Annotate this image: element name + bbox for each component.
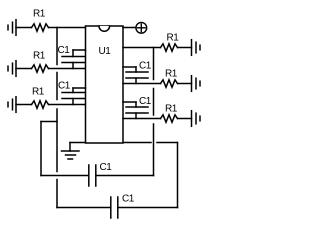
svg-text:R1: R1 bbox=[165, 69, 178, 80]
capacitor C1 (left lower) bbox=[62, 88, 86, 105]
wire (left lead of middle capacitor) bbox=[41, 175, 88, 177]
resistor R1 (right row 2) bbox=[161, 80, 178, 87]
svg-text:R1: R1 bbox=[33, 50, 46, 61]
resistor R1 (right row 1) bbox=[161, 44, 178, 51]
wire (row1 left: ground to resistor) bbox=[16, 27, 32, 29]
resistor R1 (left row 3) bbox=[32, 101, 49, 108]
ground (right, row 2) bbox=[192, 76, 201, 92]
wire (row1 right: U1 pin to resistor) bbox=[123, 47, 161, 49]
wire (row3 right: U1 pin to resistor) bbox=[123, 118, 161, 120]
capacitor C1 (right lower) bbox=[123, 102, 148, 119]
wire (row3 left: ground to resistor) bbox=[16, 104, 32, 106]
wire (row2 right: resistor to ground) bbox=[178, 83, 192, 85]
wire (row1 left: resistor to U1 pin) bbox=[49, 27, 86, 29]
wire (row1 right: resistor to ground) bbox=[178, 47, 192, 49]
wire (row3 left: resistor to U1 pin) bbox=[49, 104, 86, 106]
wire (vertical at x=41 down to middle capacitor) bbox=[40, 122, 42, 176]
resistor R1 (left row 2) bbox=[32, 65, 49, 72]
wire (U1 bottom-left pin to ground) bbox=[70, 142, 86, 144]
svg-text:C1: C1 bbox=[139, 61, 152, 72]
resistor R1 (right row 3) bbox=[161, 115, 178, 122]
wire (vertical bus at x=153 from row1 right, with hops) bbox=[153, 48, 155, 176]
ground (left, row 2) bbox=[8, 61, 16, 77]
resistor R1 (left row 1) bbox=[32, 24, 49, 31]
op-amp U1 (IC body) bbox=[86, 26, 124, 143]
wire (row2 left: ground to resistor) bbox=[16, 68, 32, 70]
wire (vertical bus at x=57 from row1, with hops) bbox=[56, 28, 58, 208]
capacitor C1 (right upper) bbox=[123, 67, 148, 84]
svg-text:R1: R1 bbox=[165, 104, 178, 115]
capacitor C1 (middle bottom) bbox=[89, 165, 96, 186]
wire (right lead of bottom capacitor) bbox=[119, 207, 178, 209]
svg-text:C1: C1 bbox=[139, 96, 152, 107]
wire (branch x=57 to x=41 at y=121.5) bbox=[41, 121, 57, 123]
svg-text:C1: C1 bbox=[58, 45, 71, 56]
svg-text:C1: C1 bbox=[122, 194, 135, 205]
ground (left, row 1) bbox=[8, 20, 16, 36]
wire (row2 right: U1 pin to resistor) bbox=[123, 83, 161, 85]
ground (below U1) bbox=[62, 143, 80, 160]
ground (left, row 3) bbox=[8, 97, 16, 113]
capacitor C1 (left upper) bbox=[62, 50, 86, 69]
power terminal (circle plus) bbox=[136, 22, 147, 33]
wire (U1 top-right to power terminal) bbox=[123, 27, 136, 29]
capacitor C1 (bottom) bbox=[111, 197, 118, 218]
ground (right, row 3) bbox=[192, 111, 201, 127]
wire (right lead of middle capacitor to x=153 bus) bbox=[97, 175, 154, 177]
svg-text:R1: R1 bbox=[167, 33, 180, 44]
svg-text:C1: C1 bbox=[100, 162, 113, 173]
svg-text:R1: R1 bbox=[33, 8, 46, 19]
wire (U1 bottom-right pin, with hop over x=153) bbox=[123, 142, 178, 144]
ground (right, row 1) bbox=[192, 40, 201, 56]
svg-text:U1: U1 bbox=[99, 46, 112, 57]
svg-text:C1: C1 bbox=[58, 81, 71, 92]
wire (row3 right: resistor to ground) bbox=[178, 118, 192, 120]
wire (vertical at x=177.5 down to bottom capacitor) bbox=[177, 143, 179, 208]
wire (left lead of bottom capacitor) bbox=[57, 207, 110, 209]
svg-text:R1: R1 bbox=[32, 87, 45, 98]
wire (row2 left: resistor to U1 pin) bbox=[49, 68, 86, 70]
